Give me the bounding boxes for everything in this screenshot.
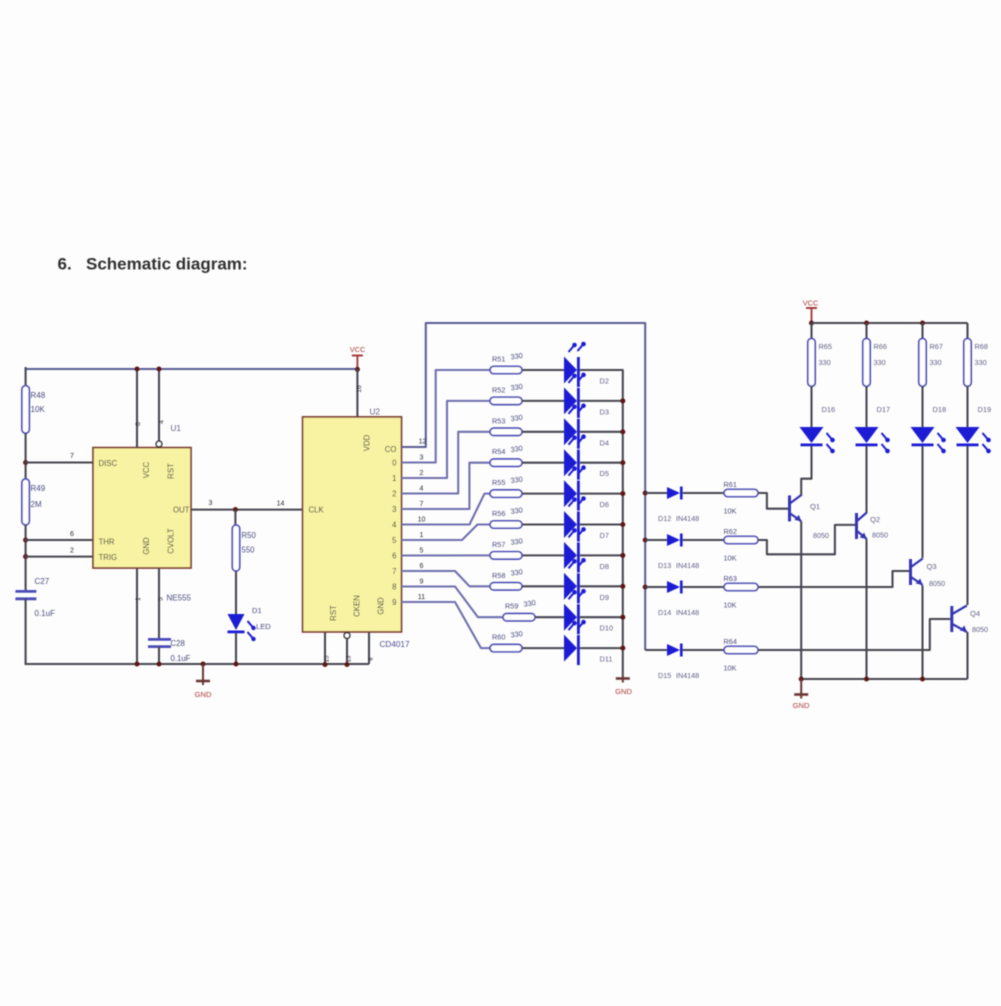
wire pin16 <box>356 369 358 417</box>
wire <box>25 599 27 665</box>
svg-text:CLK: CLK <box>309 505 325 514</box>
diode D13 1N4148 <box>645 539 667 541</box>
svg-text:11: 11 <box>418 594 425 601</box>
node DISC junction <box>23 460 28 465</box>
svg-text:VDD: VDD <box>363 434 372 451</box>
svg-text:D11: D11 <box>600 655 613 664</box>
wire D18 cathode to Q3 collector <box>921 446 923 558</box>
wire <box>535 616 564 618</box>
svg-text:IN4148: IN4148 <box>676 608 699 617</box>
node THR junction <box>23 537 28 542</box>
svg-text:330: 330 <box>510 629 523 640</box>
wire <box>580 647 624 649</box>
svg-text:330: 330 <box>510 351 523 362</box>
wire pin8 VCC <box>136 369 138 448</box>
wire pin13 with bubble <box>344 633 350 639</box>
wire <box>522 400 564 402</box>
svg-text:8: 8 <box>392 582 396 591</box>
svg-text:330: 330 <box>930 358 942 367</box>
svg-text:R58: R58 <box>492 571 505 580</box>
svg-text:330: 330 <box>510 382 523 393</box>
wire <box>865 386 867 428</box>
LED D10 <box>564 604 577 631</box>
LED D3 <box>564 387 577 414</box>
transistor Q4 8050 <box>950 606 953 632</box>
svg-text:R62: R62 <box>724 527 737 536</box>
svg-text:R54: R54 <box>492 447 505 456</box>
wire TRIG <box>25 556 93 558</box>
svg-text:D5: D5 <box>600 469 609 478</box>
capacitor C27 <box>15 590 36 593</box>
svg-text:Schematic diagram:: Schematic diagram: <box>86 255 248 274</box>
svg-text:4: 4 <box>159 420 166 424</box>
svg-text:D4: D4 <box>600 438 609 447</box>
wire LED cathode rail <box>622 370 624 676</box>
svg-text:D18: D18 <box>933 405 947 414</box>
svg-text:8: 8 <box>368 657 375 661</box>
wire <box>580 554 624 556</box>
svg-text:D19: D19 <box>978 405 992 414</box>
LED D17 <box>855 427 879 443</box>
wire <box>580 400 624 402</box>
resistor R57 330 <box>490 552 522 559</box>
wire <box>580 493 624 495</box>
svg-text:4: 4 <box>392 520 397 529</box>
svg-text:LED: LED <box>256 622 271 631</box>
wire <box>865 323 867 339</box>
wire <box>580 462 624 464</box>
svg-text:3: 3 <box>209 500 213 507</box>
wire base Q2 <box>758 525 855 554</box>
resistor R53 330 <box>490 428 522 435</box>
svg-text:13: 13 <box>346 655 353 662</box>
wire pin15 <box>324 632 326 665</box>
svg-text:R49: R49 <box>31 484 46 493</box>
wire D17 cathode to Q2 collector <box>865 446 867 513</box>
svg-text:D15: D15 <box>658 671 671 680</box>
wire Q3 emitter down <box>921 586 923 680</box>
svg-text:330: 330 <box>510 444 523 455</box>
resistor R48 <box>22 386 29 434</box>
svg-text:16: 16 <box>356 385 363 393</box>
wire base Q4 <box>758 619 950 650</box>
IC U2 CD4017 body <box>303 417 402 632</box>
svg-text:Q2: Q2 <box>870 515 880 524</box>
svg-text:10K: 10K <box>724 664 737 673</box>
svg-text:GND: GND <box>142 537 151 555</box>
wire <box>522 369 564 371</box>
svg-text:D3: D3 <box>600 407 609 416</box>
diode D12 1N4148 <box>645 492 667 494</box>
svg-text:0: 0 <box>392 458 397 467</box>
svg-text:R48: R48 <box>31 391 46 400</box>
wire <box>966 323 968 339</box>
LED D6 <box>564 480 577 507</box>
wire left column top <box>25 367 27 387</box>
svg-text:D1: D1 <box>252 606 262 615</box>
svg-text:VCC: VCC <box>350 345 366 354</box>
svg-text:R67: R67 <box>930 342 943 351</box>
svg-text:D12: D12 <box>658 514 671 523</box>
LED D18 <box>911 427 935 443</box>
wire <box>522 431 564 433</box>
svg-text:8050: 8050 <box>929 579 945 588</box>
svg-text:330: 330 <box>510 474 523 485</box>
wire CD4017 output 0 to R51 <box>402 370 491 463</box>
wire <box>522 585 564 587</box>
svg-text:6.: 6. <box>58 255 72 274</box>
svg-text:8: 8 <box>135 422 142 426</box>
svg-text:2: 2 <box>420 470 424 477</box>
svg-text:10K: 10K <box>31 405 46 414</box>
svg-text:330: 330 <box>523 598 536 609</box>
resistor R67 330 <box>919 339 926 387</box>
wire <box>580 431 624 433</box>
svg-text:R60: R60 <box>492 633 505 642</box>
wire <box>580 523 624 525</box>
wire <box>522 523 564 525</box>
svg-text:R55: R55 <box>492 478 505 487</box>
svg-text:8050: 8050 <box>813 531 829 540</box>
svg-text:R63: R63 <box>724 574 737 583</box>
wire pin1 GND <box>136 568 138 665</box>
wire <box>235 571 237 615</box>
svg-text:R59: R59 <box>505 602 518 611</box>
wire <box>921 386 923 428</box>
LED D9 <box>564 573 577 600</box>
wire <box>810 323 812 339</box>
wire <box>522 493 564 495</box>
svg-text:R53: R53 <box>492 416 505 425</box>
diode D14 1N4148 <box>645 586 667 588</box>
resistor R64 10K <box>724 646 758 653</box>
wire <box>580 369 624 371</box>
wire top rail right <box>812 322 968 324</box>
wire <box>522 462 564 464</box>
svg-text:D7: D7 <box>600 531 609 540</box>
wire CD4017 output 5 to R56 <box>402 525 491 541</box>
wire <box>580 616 624 618</box>
svg-text:330: 330 <box>874 358 886 367</box>
wire <box>921 323 923 339</box>
resistor R66 330 <box>863 339 870 387</box>
svg-text:2: 2 <box>70 548 74 555</box>
svg-text:CKEN: CKEN <box>353 595 362 617</box>
svg-text:VCC: VCC <box>142 461 151 478</box>
wire VCC top rail <box>26 368 358 370</box>
LED D8 <box>564 542 577 569</box>
svg-text:5: 5 <box>158 597 165 601</box>
svg-text:R65: R65 <box>819 342 832 351</box>
svg-text:CO: CO <box>385 445 397 454</box>
svg-text:9: 9 <box>392 598 396 607</box>
resistor R61 10K <box>724 489 758 496</box>
svg-text:CD4017: CD4017 <box>380 640 410 649</box>
svg-text:15: 15 <box>324 655 331 662</box>
wire CD4017 output 7 to R58 <box>402 571 491 586</box>
wire CO route to right section <box>402 323 646 650</box>
svg-text:6: 6 <box>392 551 396 560</box>
LED D2 <box>564 357 577 384</box>
svg-text:14: 14 <box>277 501 285 508</box>
diode D15 1N4148 <box>645 649 667 651</box>
svg-text:330: 330 <box>510 505 523 516</box>
wire Q1 emitter down <box>800 522 802 680</box>
wire CD4017 output 9 to R510 <box>402 602 491 648</box>
resistor R54 330 <box>490 459 522 466</box>
svg-text:3: 3 <box>420 454 424 461</box>
svg-text:R68: R68 <box>975 342 988 351</box>
node OUT junction <box>233 507 238 512</box>
svg-text:NE555: NE555 <box>167 594 192 603</box>
svg-text:GND: GND <box>615 687 632 696</box>
LED D4 <box>564 418 577 445</box>
svg-text:RST: RST <box>167 463 176 479</box>
svg-text:D17: D17 <box>877 405 891 414</box>
svg-text:D10: D10 <box>600 624 614 633</box>
svg-text:CVOLT: CVOLT <box>167 528 176 554</box>
wire CD4017 output 3 to R54 <box>402 463 491 509</box>
svg-text:GND: GND <box>793 701 810 710</box>
svg-text:Q1: Q1 <box>810 502 820 511</box>
LED D16 <box>800 427 824 443</box>
wire <box>966 323 968 339</box>
svg-text:Q3: Q3 <box>927 562 937 571</box>
svg-text:9: 9 <box>420 578 424 585</box>
svg-text:DISC: DISC <box>99 459 118 468</box>
resistor R63 10K <box>724 583 758 590</box>
resistor R510 330 <box>490 644 522 651</box>
wire CD4017 output 1 to R52 <box>402 401 491 478</box>
node TRIG junction <box>23 554 28 559</box>
svg-text:THR: THR <box>99 538 115 547</box>
svg-text:6: 6 <box>70 531 74 538</box>
LED D1 <box>228 614 245 630</box>
wire OUT pin3 <box>191 509 303 511</box>
ground middle <box>622 676 624 683</box>
svg-text:1: 1 <box>392 474 396 483</box>
wire base Q1 <box>758 493 788 509</box>
svg-text:330: 330 <box>819 358 831 367</box>
svg-text:D2: D2 <box>600 377 609 386</box>
wire Q2 emitter down <box>865 539 867 679</box>
svg-text:U2: U2 <box>370 408 381 417</box>
svg-text:0.1uF: 0.1uF <box>171 654 191 663</box>
svg-text:2: 2 <box>392 489 396 498</box>
wire CD4017 output 2 to R53 <box>402 432 491 494</box>
wire bottom GND rail <box>26 663 369 665</box>
LED D19 <box>956 427 980 443</box>
resistor R55 330 <box>490 490 522 497</box>
svg-text:5: 5 <box>420 547 424 554</box>
svg-text:0.1uF: 0.1uF <box>35 609 56 618</box>
svg-text:IN4148: IN4148 <box>676 561 699 570</box>
svg-text:R51: R51 <box>492 355 505 364</box>
svg-text:1: 1 <box>420 532 424 539</box>
wire DISC <box>25 461 93 463</box>
svg-text:1: 1 <box>135 597 142 601</box>
svg-text:6: 6 <box>420 563 424 570</box>
svg-text:10: 10 <box>418 516 426 523</box>
svg-text:D8: D8 <box>600 562 609 571</box>
wire base Q3 <box>758 571 909 587</box>
svg-text:2M: 2M <box>31 500 42 509</box>
resistor R50 <box>234 510 236 526</box>
svg-text:VCC: VCC <box>803 299 819 308</box>
svg-text:8050: 8050 <box>972 625 988 634</box>
LED D7 <box>564 511 577 538</box>
resistor R65 330 <box>808 339 815 387</box>
capacitor C28 <box>148 638 171 641</box>
svg-text:R66: R66 <box>874 342 887 351</box>
LED D11 <box>564 635 577 662</box>
transistor Q3 8050 <box>909 559 912 585</box>
svg-text:R57: R57 <box>492 540 505 549</box>
wire Q4 emitter down <box>966 632 968 679</box>
wire <box>522 554 564 556</box>
wire pin5 CVOLT <box>158 568 160 640</box>
resistor R62 10K <box>724 536 758 543</box>
wire <box>522 647 564 649</box>
wire <box>966 386 968 428</box>
wire <box>580 585 624 587</box>
svg-text:OUT: OUT <box>173 505 190 514</box>
LED D5 <box>564 449 577 476</box>
svg-text:IN4148: IN4148 <box>676 514 699 523</box>
svg-text:RST: RST <box>329 605 338 621</box>
wire rail top corner <box>580 369 623 371</box>
svg-text:R64: R64 <box>724 637 737 646</box>
svg-text:D16: D16 <box>822 405 836 414</box>
svg-text:330: 330 <box>510 413 523 424</box>
svg-text:10K: 10K <box>724 554 737 563</box>
svg-text:R56: R56 <box>492 509 505 518</box>
ground left <box>202 664 204 685</box>
svg-text:Q4: Q4 <box>970 609 980 618</box>
svg-text:D9: D9 <box>600 593 609 602</box>
svg-text:R52: R52 <box>492 385 505 394</box>
svg-text:C27: C27 <box>35 577 50 586</box>
resistor R59 330 <box>503 614 535 621</box>
wire <box>25 433 27 480</box>
wire <box>235 633 237 665</box>
wire <box>563 369 565 371</box>
svg-text:7: 7 <box>420 501 424 508</box>
wire pin8 gnd <box>368 632 370 664</box>
resistor R51 330 <box>490 366 522 373</box>
svg-text:TRIG: TRIG <box>99 553 118 562</box>
svg-text:IN4148: IN4148 <box>676 671 699 680</box>
svg-text:330: 330 <box>510 536 523 547</box>
wire <box>25 524 27 592</box>
wire pin4 RST with bubble <box>158 369 160 441</box>
transistor Q1 8050 <box>788 495 791 521</box>
svg-text:7: 7 <box>70 453 74 460</box>
resistor R56 330 <box>490 521 522 528</box>
svg-text:330: 330 <box>975 358 987 367</box>
resistor R52 330 <box>490 397 522 404</box>
wire bottom rail right <box>801 678 967 680</box>
svg-text:8050: 8050 <box>872 531 888 540</box>
svg-text:U1: U1 <box>171 424 182 433</box>
resistor R58 330 <box>490 583 522 590</box>
svg-text:12: 12 <box>419 439 427 446</box>
svg-text:GND: GND <box>195 690 212 699</box>
svg-text:4: 4 <box>420 485 424 492</box>
resistor R49 <box>22 479 29 525</box>
svg-text:R61: R61 <box>724 480 737 489</box>
svg-text:7: 7 <box>392 567 396 576</box>
wire diode anode rail <box>643 490 648 495</box>
svg-text:D14: D14 <box>658 608 671 617</box>
svg-text:550: 550 <box>242 546 256 555</box>
wire THR <box>25 539 93 541</box>
svg-text:GND: GND <box>377 597 386 615</box>
svg-text:5: 5 <box>392 536 397 545</box>
svg-text:3: 3 <box>392 505 396 514</box>
svg-text:10K: 10K <box>724 601 737 610</box>
svg-text:C28: C28 <box>171 639 185 648</box>
wire CD4017 output 6 to R57 <box>402 554 491 556</box>
svg-text:D6: D6 <box>600 500 609 509</box>
svg-text:D13: D13 <box>658 561 671 570</box>
transistor Q2 8050 <box>855 513 858 539</box>
wire CD4017 output 8 to R59 <box>402 587 504 618</box>
wire D16 cathode to Q1 collector <box>801 446 811 496</box>
svg-text:330: 330 <box>510 567 523 578</box>
wire <box>810 386 812 428</box>
wire CD4017 output 4 to R55 <box>402 494 491 525</box>
ground right <box>800 679 802 699</box>
resistor R68 330 <box>964 339 971 387</box>
svg-text:R50: R50 <box>242 531 257 540</box>
wire D19 cathode to Q4 collector <box>966 446 968 605</box>
svg-text:10K: 10K <box>724 507 737 516</box>
op-amp U1 NE555 body <box>93 448 191 568</box>
